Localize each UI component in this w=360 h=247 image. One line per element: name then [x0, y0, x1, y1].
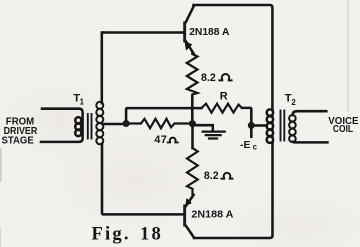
label T2 [285, 92, 297, 107]
label 8.2 ohm (top) [201, 72, 216, 84]
resistor R (zigzag) [202, 104, 243, 113]
wire: bottom rail Q2 collector to T2 primary bottom [194, 143, 273, 239]
wire: T1 secondary bottom to Q2 base [102, 144, 183, 215]
svg-text:R: R [220, 91, 228, 103]
T2 core [280, 111, 282, 141]
wire: top rail Q1 collector to T2 primary top [194, 5, 273, 110]
svg-text:2: 2 [291, 98, 296, 107]
wire: node B down to 8.2 bottom [191, 127, 194, 148]
svg-text:2N188 A: 2N188 A [191, 209, 234, 220]
wire: R to node C [242, 108, 251, 122]
T1 core [87, 114, 89, 139]
scan streak (decorative) [347, 0, 349, 112]
label T1 [73, 93, 84, 107]
node A junction dot (T1 center tap node) [123, 120, 130, 127]
wire: node A up and over to R (bias divider) [126, 108, 201, 121]
resistor 8.2 ohm (bottom, Q2 emitter) [187, 148, 198, 195]
svg-text:1: 1 [80, 97, 85, 106]
svg-text:STAGE: STAGE [2, 135, 34, 146]
ohm symbol (bottom) [222, 173, 233, 179]
T2 secondary winding [289, 115, 296, 122]
svg-text:COIL: COIL [333, 124, 353, 135]
wire: T1 center tap to node A [103, 123, 123, 126]
label VOICE COIL [328, 116, 359, 135]
svg-text:8.2: 8.2 [201, 72, 216, 84]
wire: Q1 base lead [102, 31, 183, 34]
wire: T1 secondary top to Q1 base [102, 33, 104, 104]
T1 secondary winding [96, 102, 103, 109]
wire: T2 secondary bottom output [292, 141, 327, 144]
svg-text:47: 47 [154, 134, 167, 146]
svg-text:c: c [253, 143, 258, 152]
wire: -Ec supply stub [250, 129, 253, 137]
transformer T2 [267, 109, 296, 142]
wire: node C to T2 center tap [255, 124, 267, 127]
svg-text:8.2: 8.2 [204, 170, 219, 182]
node C junction dot (-Ec node) [248, 122, 255, 129]
paper shading (decorative) [40, 120, 230, 240]
wire: 8.2 top to node B [191, 97, 194, 122]
T1 primary winding [41, 109, 83, 142]
transformer T1 [41, 102, 103, 145]
T2 primary winding [267, 109, 273, 115]
transistor Q1 2N188 A (top) [183, 6, 194, 54]
ohm symbol (top) [219, 74, 231, 80]
svg-text:-E: -E [240, 140, 250, 151]
scan artifacts (decorative) [0, 148, 2, 182]
resistor 47 ohm [129, 119, 189, 128]
label -Ec [240, 140, 258, 152]
wire: T2 secondary top output [292, 111, 326, 115]
svg-text:2N188 A: 2N188 A [189, 27, 230, 38]
ground symbol [196, 125, 225, 138]
transistor Q2 2N188 A (bottom) [183, 195, 194, 238]
resistor 8.2 ohm (top, Q1 emitter) [187, 52, 198, 97]
ohm symbol (47) [168, 138, 178, 143]
label FROM DRIVER STAGE [2, 116, 38, 146]
svg-text:Fig. 18: Fig. 18 [92, 224, 164, 245]
node B junction dot (emitter/ground node) [189, 120, 196, 127]
